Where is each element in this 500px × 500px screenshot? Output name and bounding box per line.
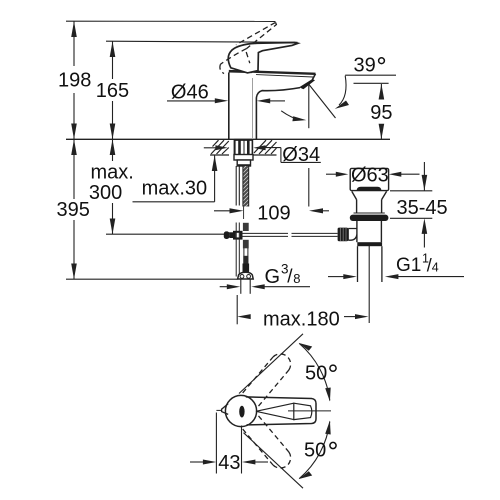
pop-up rod upper segment [236,166,239,206]
50 degree arc lower [299,422,330,479]
faucet body inner highlight line [251,78,253,138]
43 dimension extension lines [215,413,217,474]
mounting nut [234,155,253,167]
svg-text:39: 39 [354,55,376,77]
50 degree reference line upper [239,334,303,394]
svg-text:50: 50 [304,440,326,462]
deck reference line [66,138,390,140]
braided flex hose upper segment [243,166,249,207]
handle indicator dot [239,406,244,418]
39 degree leader [335,75,396,109]
dimension 43 [190,460,268,465]
dimension 395 [71,139,77,279]
lever centerline [288,410,331,412]
dimension max.180 [237,246,369,324]
svg-text:35-45: 35-45 [397,197,448,219]
lever nose (top view) [222,404,229,415]
50 degree reference line lower [244,433,304,489]
dimension 95 [379,84,385,139]
svg-text:43: 43 [218,452,240,474]
G3/8 hose end nut [238,272,254,279]
dimension 198 [71,21,77,139]
drain plunger head [350,168,388,190]
svg-text:165: 165 [96,80,129,102]
dimension G3/8 [220,284,310,289]
svg-text:Ø63: Ø63 [351,165,389,187]
label G3/8 [265,262,301,288]
pivot circle (handle base, top view) [225,395,256,426]
svg-text:109: 109 [257,203,290,225]
extension line hose/rod level [106,233,225,235]
aerator (dark) [299,79,315,89]
knurled knob on drain rod [338,228,349,242]
dashed lever rotated up 50 [243,354,291,406]
svg-text:Ø46: Ø46 [171,82,209,104]
dimension 165 [110,41,116,139]
drain neck [352,191,387,213]
pop-up rod lower + tee adjuster [233,223,243,277]
dimension max.300 [110,139,116,234]
dashed lever rotated down 50 [243,416,291,468]
95 dimension extension line [354,82,389,84]
shank threads through deck [234,140,253,154]
Ø63 dimension [326,172,420,177]
spray angle line [309,85,336,119]
horizontal pop-up linkage rod [241,233,338,236]
dashed lever (raised position) [220,22,277,73]
drain flange (dark) [350,215,389,221]
dimension 35-45 [390,162,432,248]
50 degree arc upper [299,344,330,401]
faucet body [229,71,257,139]
braided hose lower segment [243,223,250,272]
svg-text:198: 198 [58,70,91,92]
drain tailpipe [358,246,382,282]
svg-text:max.: max. [91,162,134,184]
G3/8 tail tube [241,280,250,294]
dimension G1 1/4 [328,274,464,279]
extension line top (dashed lever tip level) [66,20,276,22]
drain coupling (dark band) [357,242,382,246]
svg-text:max.30: max.30 [142,177,208,199]
pop-up rod left stub and knob [224,231,233,239]
label G1 1/4 [396,251,439,276]
svg-text:G1: G1 [396,255,421,276]
deck slab hatching right [254,140,277,155]
lever top view outline [246,397,316,425]
extension line solid lever tip level [106,41,298,42]
Ø34 dimension [204,145,281,162]
drain body [357,221,382,242]
lever top view inner face [256,403,312,421]
svg-text:G: G [265,266,281,288]
max.30 leader [133,155,218,201]
svg-text:8: 8 [293,271,300,286]
spout [252,72,316,98]
dimension 109 [214,208,329,213]
svg-text:395: 395 [57,199,90,221]
109 extension line right (aerator center) [308,85,310,128]
svg-text:max.180: max.180 [263,309,340,331]
svg-text:4: 4 [432,261,439,275]
extension line G3/8 end level [66,278,238,280]
svg-text:50: 50 [305,363,327,385]
svg-text:/: / [287,267,293,288]
spray angle arc arrow [281,111,300,120]
rod socket on drain [348,229,357,241]
svg-text:300: 300 [89,182,122,204]
Ø46 dimension [167,98,285,103]
svg-text:95: 95 [370,102,392,124]
hose break continuation line [243,207,245,220]
deck slab hatching left [210,140,229,155]
solid lever handle [228,43,298,73]
